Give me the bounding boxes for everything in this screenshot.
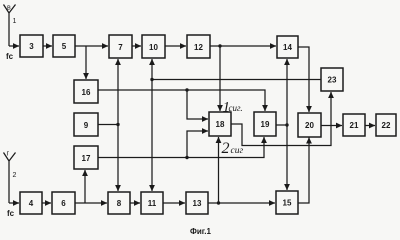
svg-text:2: 2	[222, 140, 230, 157]
svg-text:6: 6	[61, 199, 66, 208]
svg-text:3: 3	[29, 42, 34, 51]
wire vertical 9 to 8 top	[117, 125, 119, 192]
wire 19 output	[276, 124, 287, 126]
block 8	[108, 192, 130, 214]
wire vertical to 11 top	[151, 80, 153, 192]
block 22	[376, 114, 396, 136]
wire 23 output to node on 10/11 line	[152, 79, 321, 81]
svg-text:8: 8	[117, 199, 122, 208]
wire antenna2 to block 4	[9, 202, 19, 204]
wire 20 to 21	[321, 125, 342, 127]
svg-text:10: 10	[149, 43, 158, 52]
svg-text:23: 23	[328, 76, 337, 85]
wire 17 output to 19 bottom	[98, 137, 264, 158]
svg-text:12: 12	[194, 43, 203, 52]
wire 11 to 13	[163, 202, 185, 204]
block 14	[277, 36, 298, 58]
node 1 label	[13, 18, 17, 25]
wire branch 17-line to 18 input2	[187, 131, 208, 158]
block 7	[109, 35, 132, 58]
wire 4 to 6	[42, 202, 51, 204]
wire antenna1 to block 3	[9, 45, 19, 47]
wire 8 to 11	[130, 202, 140, 204]
wire 14 to 20 top	[298, 47, 309, 112]
wire 6 to 8	[75, 202, 107, 204]
wire branch to 17 bottom	[84, 170, 86, 203]
node 2 label	[13, 172, 17, 179]
svg-text:13: 13	[193, 199, 202, 208]
wire branch to 16	[85, 46, 87, 79]
wire 9 output	[98, 124, 118, 126]
wire vertical 19 to 15 top	[286, 125, 288, 190]
wire 13 to 15	[208, 202, 275, 204]
block 11	[141, 192, 163, 214]
junction on 16 line	[185, 88, 188, 91]
svg-text:2: 2	[13, 172, 17, 179]
wire 12 branch down to 18 top	[219, 46, 221, 111]
block 6	[52, 192, 75, 214]
svg-text:9: 9	[84, 121, 89, 130]
svg-text:11: 11	[148, 199, 157, 208]
wire 12 to 14	[210, 45, 276, 47]
svg-text:19: 19	[261, 120, 270, 129]
wire branch 13-line to 18 bottom	[218, 137, 220, 203]
svg-text:г: г	[7, 151, 10, 158]
block 18	[209, 112, 231, 136]
wire 10 to 12	[165, 45, 186, 47]
wire vertical 9 to 7 bottom	[117, 59, 119, 125]
block 21	[343, 114, 365, 136]
junction 19 output	[285, 123, 288, 126]
svg-text:fc: fc	[6, 52, 14, 61]
block 3	[20, 35, 43, 57]
svg-text:7: 7	[118, 43, 123, 52]
svg-text:22: 22	[382, 121, 391, 130]
block 15	[276, 191, 298, 214]
svg-text:в: в	[7, 5, 11, 12]
antenna 2	[4, 153, 16, 204]
antenna 1	[4, 5, 16, 47]
svg-text:17: 17	[82, 154, 91, 163]
label antenna-1 letter в	[7, 5, 11, 12]
block 17	[74, 146, 98, 169]
junction on 17 line	[185, 156, 188, 159]
svg-text:5: 5	[62, 42, 67, 51]
label antenna-2 letter г	[7, 151, 10, 158]
wire vertical 19 to 14 bottom	[286, 59, 288, 125]
block 5	[53, 35, 75, 57]
svg-text:fc: fc	[7, 209, 15, 218]
label 1sig	[223, 100, 243, 116]
wire 15 output to 20 bottom	[298, 138, 309, 204]
svg-text:14: 14	[283, 43, 292, 52]
block 16	[74, 80, 98, 103]
svg-text:21: 21	[350, 121, 359, 130]
junction 9 line	[116, 123, 119, 126]
wire 5 to 7	[75, 45, 108, 47]
block 23	[321, 68, 343, 91]
block 10	[142, 35, 165, 58]
caption Fig.1	[190, 227, 212, 236]
block 12	[187, 35, 210, 58]
block 20	[298, 113, 321, 137]
svg-text:сиг.: сиг.	[229, 103, 243, 113]
wire vertical to 10 bottom	[151, 59, 153, 80]
block 9	[74, 113, 98, 136]
wire 3 to 5	[43, 45, 52, 47]
svg-text:15: 15	[283, 199, 292, 208]
wire 7 to 10	[132, 45, 141, 47]
junction on 13 line	[217, 201, 220, 204]
wire 16 output to 19 top	[98, 90, 265, 111]
svg-text:1: 1	[13, 18, 17, 25]
svg-text:16: 16	[82, 88, 91, 97]
block 4	[20, 192, 42, 214]
svg-text:Фиг.1: Фиг.1	[190, 227, 212, 236]
svg-text:4: 4	[29, 199, 34, 208]
label fc (top input)	[6, 52, 14, 61]
label 2sig	[222, 140, 244, 157]
svg-text:сиг: сиг	[231, 146, 244, 156]
label fc (bottom input)	[7, 209, 15, 218]
junction at 12 output	[218, 44, 221, 47]
svg-text:20: 20	[305, 121, 314, 130]
wire 18 output to 23 bottom	[231, 92, 331, 146]
junction 23 line	[150, 78, 153, 81]
wire branch 16-line to 18 input1	[187, 90, 208, 119]
svg-text:18: 18	[216, 120, 225, 129]
block 19	[254, 112, 276, 136]
block 13	[186, 192, 208, 214]
wire 21 to 22	[365, 125, 375, 127]
